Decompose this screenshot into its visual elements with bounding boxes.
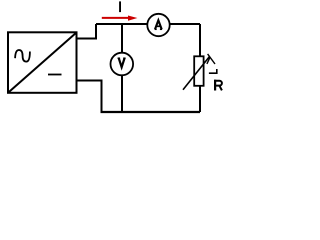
wire resistor bottom lead <box>199 86 201 112</box>
rheostat arrowhead stroke <box>208 54 215 64</box>
resistor label R <box>214 80 222 91</box>
wire voltmeter bottom lead <box>121 75 123 112</box>
voltmeter letter V <box>118 58 126 67</box>
AC/DC source box <box>8 32 77 93</box>
wire right side down to resistor <box>199 24 201 56</box>
source DC dash <box>48 74 62 76</box>
wire voltmeter top lead <box>121 24 123 54</box>
wire bottom rail <box>101 111 201 113</box>
current arrow <box>102 16 138 21</box>
voltmeter V1 <box>111 53 134 76</box>
ammeter A1 <box>147 14 169 36</box>
ammeter letter A <box>155 20 163 29</box>
source box diagonal <box>9 33 76 92</box>
rheostat arrow shaft <box>183 57 209 90</box>
current label I <box>119 1 121 12</box>
wire top rail <box>96 23 200 25</box>
source sine symbol <box>15 50 30 62</box>
wire bottom from source box down to bottom rail <box>78 81 102 113</box>
rheostat hook mark <box>209 69 217 73</box>
wire top from source box to top rail corner <box>78 24 97 39</box>
rheostat arrowhead branch <box>207 57 210 64</box>
resistor R (rheostat) <box>183 54 217 90</box>
